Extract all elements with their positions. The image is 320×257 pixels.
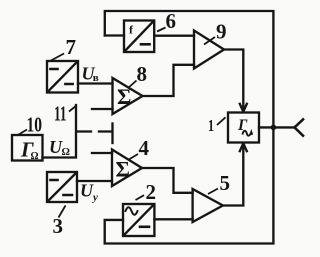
svg-text:6: 6 (166, 9, 177, 33)
svg-text:7: 7 (66, 35, 77, 59)
svg-text:10: 10 (27, 113, 43, 137)
svg-text:Σ: Σ (117, 84, 131, 109)
svg-text:4: 4 (139, 136, 150, 160)
svg-text:9: 9 (216, 20, 227, 44)
svg-text:U: U (80, 181, 94, 201)
svg-text:в: в (93, 72, 99, 84)
svg-text:Ω: Ω (31, 151, 39, 162)
svg-text:1: 1 (208, 116, 214, 135)
svg-text:11: 11 (54, 102, 67, 126)
svg-text:3: 3 (53, 214, 64, 238)
svg-text:8: 8 (137, 62, 148, 86)
svg-text:2: 2 (146, 180, 157, 204)
svg-text:у: у (91, 192, 98, 204)
svg-text:f: f (129, 23, 134, 37)
svg-text:Ω: Ω (62, 147, 70, 158)
svg-text:Σ: Σ (116, 157, 130, 182)
svg-text:5: 5 (220, 171, 231, 195)
